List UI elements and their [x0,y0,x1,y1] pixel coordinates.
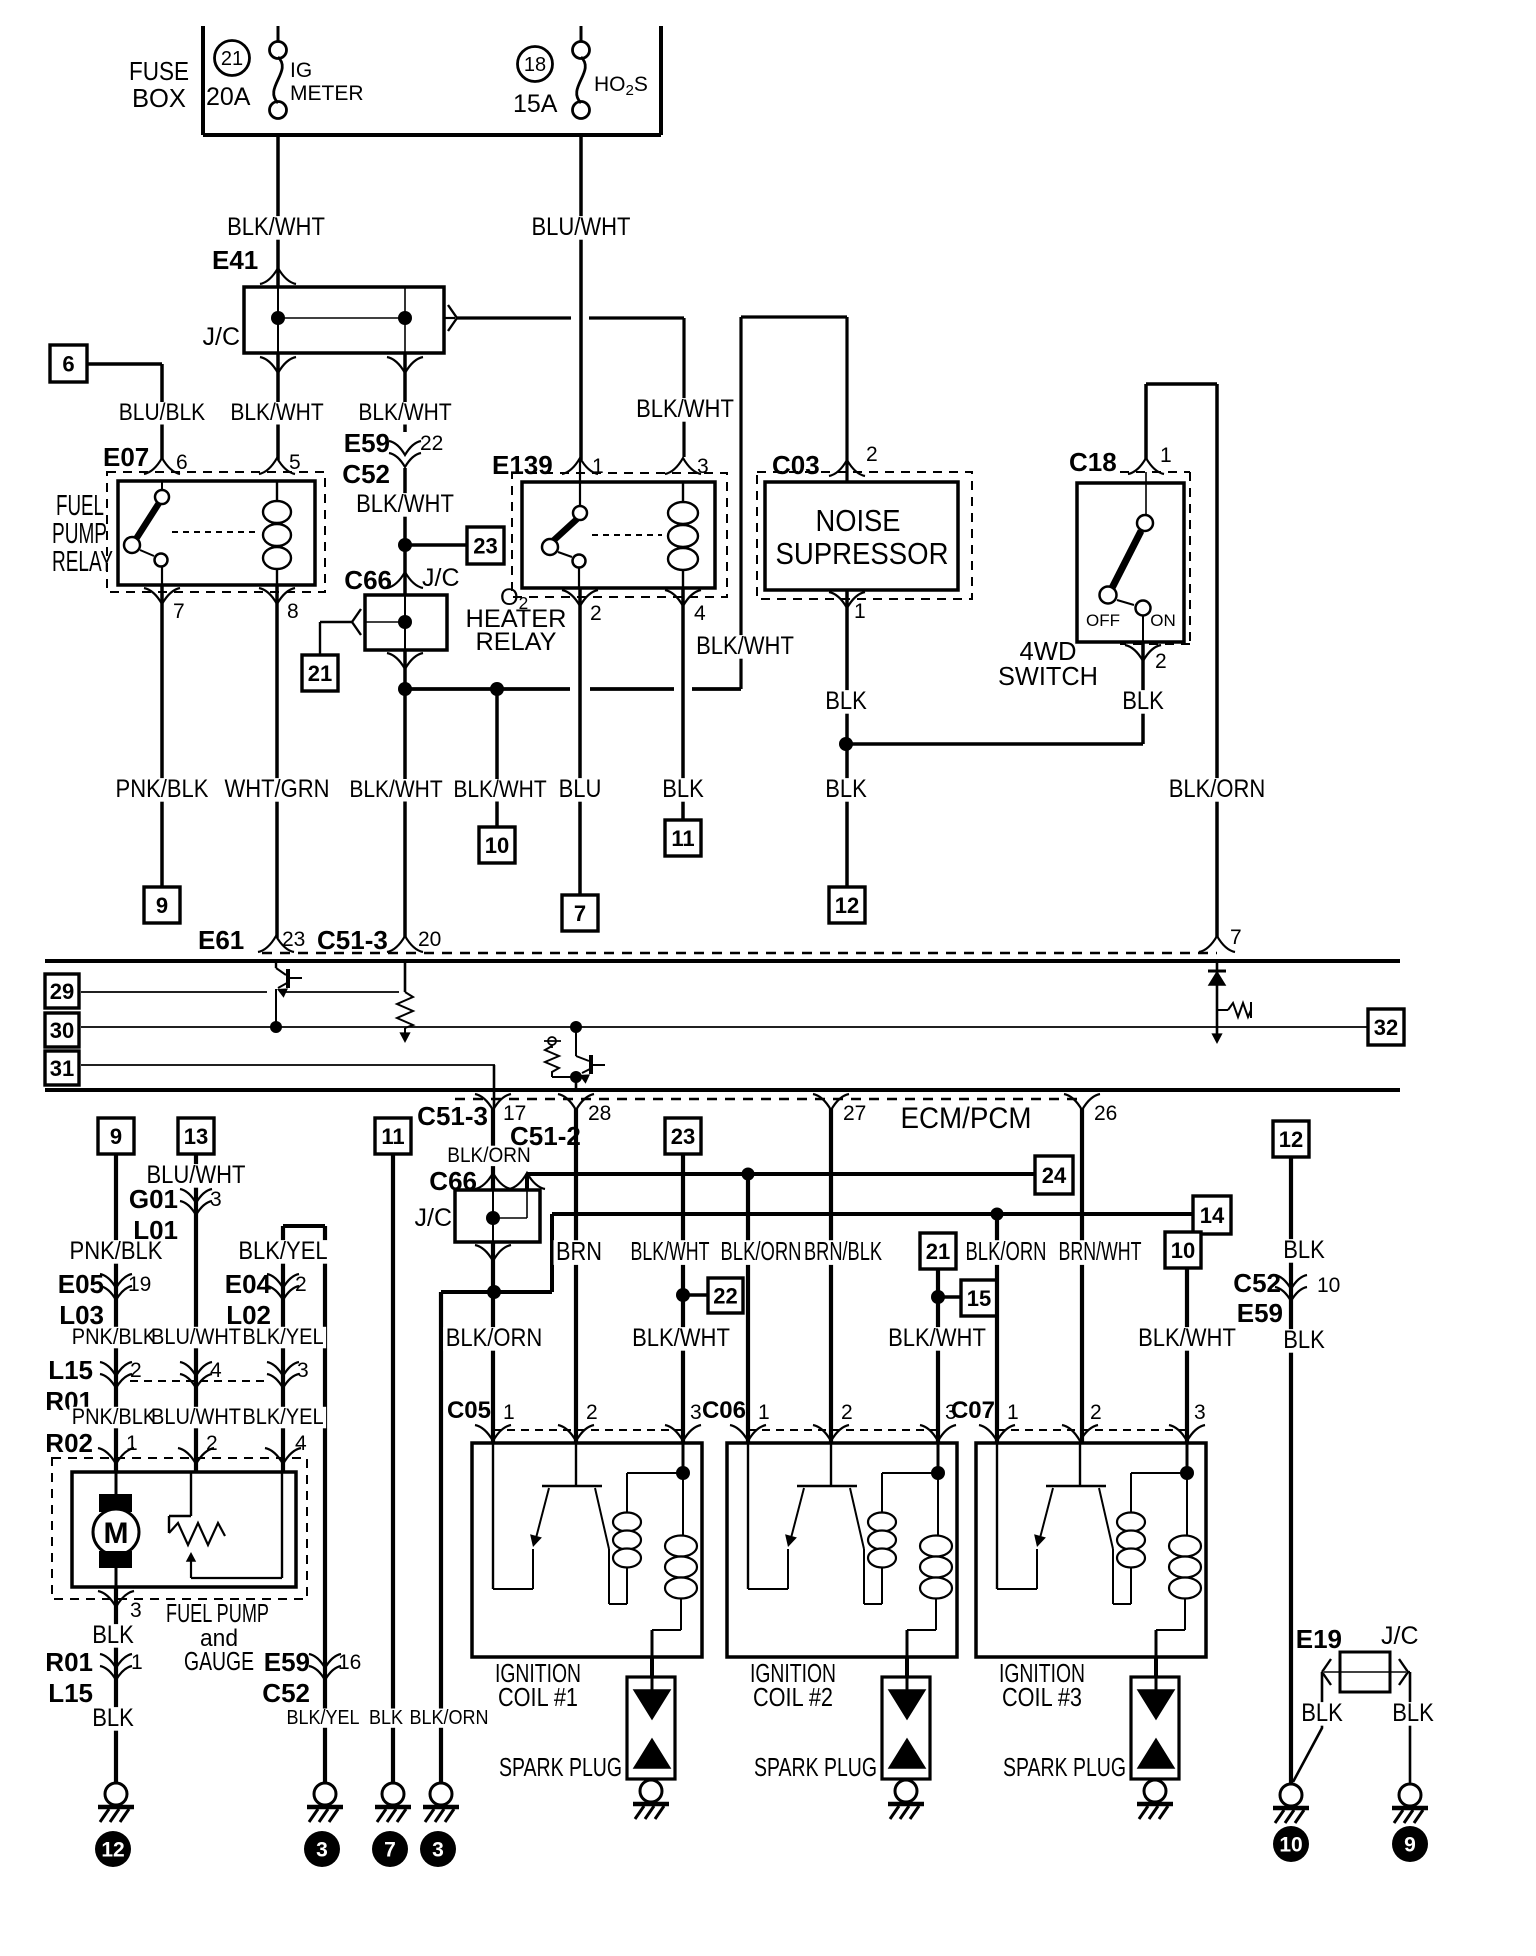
svg-text:E05: E05 [58,1269,104,1299]
svg-text:C51-3: C51-3 [317,925,388,955]
svg-text:2: 2 [866,443,878,466]
svg-text:BOX: BOX [132,83,186,113]
svg-text:22: 22 [420,432,443,455]
svg-text:BLK/WHT: BLK/WHT [227,213,325,241]
svg-text:1: 1 [131,1651,143,1674]
svg-text:BLK/WHT: BLK/WHT [631,1236,710,1266]
svg-text:10: 10 [1317,1274,1340,1297]
svg-text:FUSE: FUSE [129,56,189,86]
svg-text:BLU/WHT: BLU/WHT [151,1324,241,1349]
svg-text:C52: C52 [262,1678,310,1708]
svg-text:PNK/BLK: PNK/BLK [116,775,209,803]
svg-text:METER: METER [290,82,364,105]
svg-text:E19: E19 [1296,1624,1342,1654]
svg-text:24: 24 [1042,1163,1067,1188]
svg-text:L15: L15 [48,1678,93,1708]
svg-text:ON: ON [1150,611,1176,630]
svg-text:BLU: BLU [559,775,602,803]
svg-text:1: 1 [126,1432,138,1455]
svg-text:22: 22 [713,1284,737,1309]
svg-text:BLK/WHT: BLK/WHT [888,1324,986,1352]
svg-text:7: 7 [173,600,185,623]
svg-text:1: 1 [758,1401,770,1424]
svg-text:BLK/WHT: BLK/WHT [349,777,442,803]
svg-text:10: 10 [1279,1834,1302,1857]
svg-text:2: 2 [1090,1401,1102,1424]
svg-text:12: 12 [835,893,859,918]
svg-text:3: 3 [130,1599,142,1622]
svg-text:2: 2 [586,1401,598,1424]
svg-text:BLK/WHT: BLK/WHT [696,632,794,660]
svg-text:3: 3 [697,455,709,478]
svg-text:BLK: BLK [92,1621,134,1649]
svg-text:18: 18 [524,54,546,76]
svg-text:5: 5 [289,451,301,474]
svg-text:BLK/WHT: BLK/WHT [356,490,454,518]
svg-text:J/C: J/C [422,564,460,592]
svg-text:BLU/WHT: BLU/WHT [147,1161,246,1189]
svg-text:PNK/BLK: PNK/BLK [72,1404,157,1429]
svg-text:COIL #1: COIL #1 [498,1682,578,1712]
svg-text:SWITCH: SWITCH [998,661,1098,691]
svg-text:IG: IG [290,59,312,82]
svg-text:BLK/YEL: BLK/YEL [242,1324,323,1349]
svg-text:COIL #3: COIL #3 [1002,1682,1082,1712]
svg-text:C06: C06 [702,1397,746,1424]
svg-text:2: 2 [841,1401,853,1424]
svg-text:20: 20 [418,928,441,951]
svg-text:BLK: BLK [1392,1699,1434,1727]
svg-text:BLK: BLK [369,1707,403,1729]
svg-text:BLK: BLK [1283,1236,1325,1264]
svg-text:9: 9 [110,1124,122,1149]
svg-text:21: 21 [221,48,243,70]
svg-text:BLK/WHT: BLK/WHT [632,1324,730,1352]
svg-text:BLU/WHT: BLU/WHT [532,213,631,241]
svg-text:3: 3 [316,1839,328,1862]
svg-text:NOISE: NOISE [816,503,901,538]
svg-text:3: 3 [690,1401,702,1424]
svg-text:1: 1 [592,455,604,478]
svg-text:1: 1 [503,1401,515,1424]
svg-text:BLK/YEL: BLK/YEL [238,1237,327,1265]
svg-text:BLK/WHT: BLK/WHT [1138,1324,1236,1352]
svg-text:E59: E59 [264,1647,310,1677]
svg-text:C66: C66 [344,565,392,595]
svg-text:BLK: BLK [1122,687,1164,715]
svg-text:SUPRESSOR: SUPRESSOR [776,536,949,571]
svg-text:C07: C07 [951,1397,995,1424]
svg-text:19: 19 [128,1273,151,1296]
svg-text:7: 7 [384,1839,396,1862]
svg-text:3: 3 [297,1359,309,1382]
svg-text:PNK/BLK: PNK/BLK [70,1237,163,1265]
svg-text:16: 16 [338,1651,361,1674]
svg-text:4: 4 [694,602,706,625]
svg-text:2: 2 [206,1432,218,1455]
svg-text:J/C: J/C [415,1204,453,1232]
svg-text:M: M [104,1517,129,1550]
svg-text:3: 3 [432,1839,444,1862]
svg-text:23: 23 [671,1124,695,1149]
svg-text:BLK/WHT: BLK/WHT [636,395,734,423]
svg-text:1: 1 [1007,1401,1019,1424]
svg-text:9: 9 [156,893,168,918]
svg-text:23: 23 [282,928,305,951]
svg-text:10: 10 [485,833,509,858]
svg-text:RELAY: RELAY [52,546,113,578]
svg-text:15: 15 [967,1286,991,1311]
svg-text:BLK/ORN: BLK/ORN [447,1143,530,1167]
svg-text:10: 10 [1171,1238,1195,1263]
svg-text:14: 14 [1200,1203,1225,1228]
svg-text:7: 7 [574,901,586,926]
svg-text:28: 28 [588,1102,611,1125]
svg-text:E41: E41 [212,245,258,275]
svg-text:6: 6 [176,451,188,474]
svg-text:C52: C52 [342,459,390,489]
svg-text:J/C: J/C [203,323,241,351]
svg-text:23: 23 [473,534,497,559]
svg-text:BLK/ORN: BLK/ORN [721,1236,802,1266]
svg-text:WHT/GRN: WHT/GRN [224,775,329,803]
svg-text:BLK/YEL: BLK/YEL [287,1707,360,1729]
svg-text:BLK/ORN: BLK/ORN [446,1324,543,1352]
svg-text:FUEL PUMP: FUEL PUMP [166,1598,269,1628]
svg-text:BLK: BLK [1301,1699,1343,1727]
svg-text:SPARK PLUG: SPARK PLUG [499,1752,622,1782]
svg-text:PNK/BLK: PNK/BLK [72,1324,157,1349]
svg-text:E139: E139 [492,450,553,480]
svg-text:1: 1 [854,600,866,623]
svg-text:12: 12 [101,1839,124,1862]
svg-text:2: 2 [295,1273,307,1296]
svg-text:BLK/ORN: BLK/ORN [1169,775,1266,803]
svg-text:C18: C18 [1069,447,1117,477]
svg-text:11: 11 [381,1124,404,1149]
svg-text:HO2S: HO2S [594,73,648,99]
svg-text:ECM/PCM: ECM/PCM [901,1102,1032,1135]
svg-text:E59: E59 [1237,1298,1283,1328]
svg-text:4: 4 [295,1432,307,1455]
svg-text:E59: E59 [344,428,390,458]
svg-text:C03: C03 [772,450,820,480]
svg-text:C51-3: C51-3 [417,1101,488,1131]
svg-text:31: 31 [50,1056,74,1081]
svg-text:4: 4 [210,1359,222,1382]
svg-text:BRN: BRN [556,1236,602,1266]
svg-text:BLK: BLK [662,775,704,803]
svg-text:12: 12 [1279,1127,1303,1152]
svg-text:C52: C52 [1233,1268,1281,1298]
svg-text:R02: R02 [45,1428,93,1458]
svg-text:13: 13 [184,1124,208,1149]
svg-text:7: 7 [1230,926,1242,949]
svg-text:SPARK PLUG: SPARK PLUG [1003,1752,1126,1782]
svg-text:15A: 15A [513,90,558,118]
svg-text:3: 3 [210,1188,222,1211]
svg-text:C05: C05 [447,1397,491,1424]
svg-text:BLU/BLK: BLU/BLK [119,400,206,426]
svg-text:J/C: J/C [1381,1622,1419,1650]
svg-text:COIL #2: COIL #2 [753,1682,833,1712]
svg-text:20A: 20A [206,83,251,111]
svg-text:SPARK PLUG: SPARK PLUG [754,1752,877,1782]
svg-text:BLK/YEL: BLK/YEL [242,1404,323,1429]
svg-text:E04: E04 [225,1269,272,1299]
svg-text:BLK: BLK [825,775,867,803]
svg-text:27: 27 [843,1102,866,1125]
svg-text:29: 29 [50,979,74,1004]
svg-text:9: 9 [1404,1834,1416,1857]
svg-text:26: 26 [1094,1102,1117,1125]
svg-text:BRN/WHT: BRN/WHT [1059,1236,1142,1266]
svg-text:BLK: BLK [825,687,867,715]
svg-text:BRN/BLK: BRN/BLK [804,1236,882,1266]
svg-text:1: 1 [1160,444,1172,467]
svg-text:21: 21 [308,661,332,686]
svg-text:E07: E07 [103,442,149,472]
svg-text:6: 6 [62,352,74,377]
svg-text:8: 8 [287,600,299,623]
svg-text:BLK/ORN: BLK/ORN [410,1707,489,1729]
svg-text:RELAY: RELAY [476,628,557,656]
svg-text:2: 2 [1155,650,1167,673]
svg-text:BLK: BLK [92,1704,134,1732]
svg-text:11: 11 [671,826,694,851]
svg-text:BLK/WHT: BLK/WHT [230,400,323,426]
svg-text:32: 32 [1374,1015,1398,1040]
svg-text:BLK/WHT: BLK/WHT [358,400,451,426]
svg-text:BLK/ORN: BLK/ORN [966,1236,1047,1266]
svg-text:R01: R01 [45,1647,93,1677]
svg-text:2: 2 [590,602,602,625]
svg-text:21: 21 [926,1239,950,1264]
svg-text:BLK: BLK [1283,1326,1325,1354]
svg-text:L15: L15 [48,1355,93,1385]
svg-text:GAUGE: GAUGE [184,1646,254,1676]
svg-text:BLK/WHT: BLK/WHT [453,777,546,803]
svg-text:BLU/WHT: BLU/WHT [151,1404,241,1429]
svg-text:3: 3 [1194,1401,1206,1424]
svg-text:2: 2 [130,1359,142,1382]
svg-text:30: 30 [50,1018,74,1043]
svg-text:OFF: OFF [1086,611,1120,630]
svg-text:E61: E61 [198,925,244,955]
